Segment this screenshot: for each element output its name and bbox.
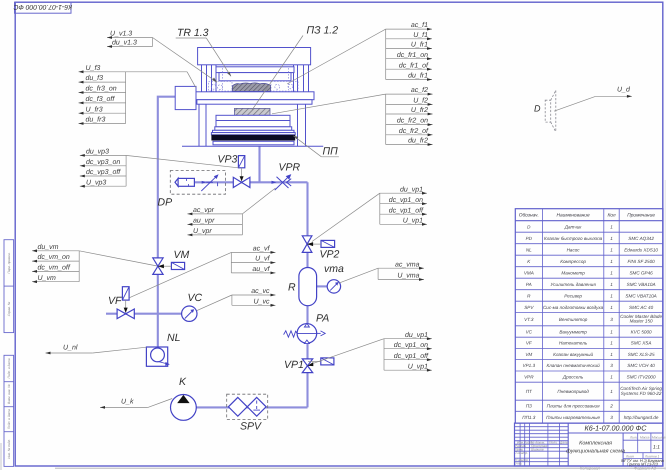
- wire pressure line VP3-VPR: [194, 181, 307, 183]
- valve VP2: [302, 236, 334, 253]
- svg-text:du_vp3: du_vp3: [86, 148, 109, 156]
- svg-text:Справ. №: Справ. №: [7, 301, 11, 316]
- svg-text:U_vc: U_vc: [254, 298, 270, 305]
- valve VM: [153, 258, 185, 275]
- svg-text:U_fr2: U_fr2: [411, 106, 428, 114]
- svg-text:Взам. инв. №: Взам. инв. №: [7, 384, 11, 404]
- svg-text:Дата: Дата: [559, 441, 569, 445]
- svg-text:1: 1: [610, 247, 613, 252]
- svg-text:Вакуумметр: Вакуумметр: [559, 329, 587, 334]
- press tyre blank hatched: [232, 83, 270, 91]
- svg-text:ПП1.3: ПП1.3: [522, 415, 535, 420]
- svg-text:2: 2: [609, 404, 613, 409]
- svg-text:ПЗ 1.2: ПЗ 1.2: [307, 25, 339, 37]
- svg-text:Лит.: Лит.: [629, 436, 638, 440]
- svg-text:1: 1: [610, 224, 613, 229]
- svg-text:1: 1: [610, 374, 613, 379]
- svg-text:1: 1: [610, 293, 613, 298]
- svg-text:Master 150: Master 150: [630, 319, 653, 324]
- svg-text:VP2: VP2: [320, 249, 340, 261]
- svg-text:dc_vp1_off: dc_vp1_off: [394, 352, 429, 360]
- svg-text:3: 3: [610, 415, 613, 420]
- svg-text:ПЗ: ПЗ: [526, 404, 532, 409]
- svg-text:Вентилятор: Вентилятор: [559, 317, 588, 322]
- node k signal: [100, 399, 172, 409]
- svg-text:DP: DP: [158, 197, 173, 209]
- svg-text:Systems FD 960-22: Systems FD 960-22: [621, 391, 662, 396]
- svg-text:U_vf: U_vf: [255, 255, 270, 263]
- node vf bus: [130, 251, 276, 298]
- compressor K: [171, 395, 197, 421]
- svg-text:dc_vp1_on: dc_vp1_on: [394, 341, 428, 349]
- svg-text:dc_vm_on: dc_vm_on: [38, 253, 70, 261]
- muffler DP capsule: [175, 178, 194, 186]
- svg-text:Дроссель: Дроссель: [562, 374, 584, 379]
- press bottom plate: [213, 141, 294, 145]
- svg-text:du_f3: du_f3: [86, 74, 104, 82]
- press mold dashed right: [271, 68, 298, 91]
- svg-text:K: K: [179, 376, 187, 388]
- svg-text:du_fr2: du_fr2: [408, 137, 428, 145]
- svg-text:U_d: U_d: [617, 86, 631, 94]
- svg-text:dc_vp1_on: dc_vp1_on: [389, 196, 423, 204]
- svg-text:Ресивер: Ресивер: [564, 293, 582, 298]
- booster PA: [284, 323, 326, 343]
- svg-text:U_f1: U_f1: [413, 31, 428, 39]
- press base line: [182, 145, 323, 147]
- svg-text:Ширшов: Ширшов: [531, 448, 544, 452]
- svg-text:SPV: SPV: [524, 305, 534, 310]
- svg-text:U_f2: U_f2: [413, 97, 428, 105]
- gauge vma: [327, 280, 340, 293]
- svg-text:dc_vp3_on: dc_vp3_on: [86, 158, 120, 166]
- pump NL: [146, 347, 169, 366]
- svg-text:au_vf: au_vf: [252, 265, 270, 273]
- valve VP3: [233, 156, 250, 188]
- svg-text:ac_vc: ac_vc: [251, 288, 270, 295]
- svg-text:1: 1: [610, 352, 613, 357]
- svg-text:KVC 5000: KVC 5000: [631, 329, 652, 334]
- svg-text:U_vp1: U_vp1: [403, 217, 423, 224]
- svg-text:1: 1: [610, 329, 613, 334]
- svg-text:К6-1-07.00.000 ФС: К6-1-07.00.000 ФС: [13, 3, 72, 10]
- svg-text:ac_f1: ac_f1: [411, 21, 428, 29]
- press lower heater hatched: [234, 108, 270, 115]
- svg-text:PD: PD: [526, 236, 533, 241]
- svg-text:SMC AC 40: SMC AC 40: [629, 305, 654, 310]
- svg-text:Клапан пневматический: Клапан пневматический: [547, 363, 601, 368]
- svg-text:VMA: VMA: [524, 270, 534, 275]
- pipes: [106, 97, 327, 408]
- svg-text:1: 1: [610, 389, 613, 394]
- spec table: [515, 209, 663, 423]
- leader ПП: [321, 156, 339, 158]
- node f1 bus: [287, 28, 432, 84]
- svg-text:1: 1: [610, 259, 613, 264]
- svg-text:U_k: U_k: [121, 398, 134, 406]
- svg-text:Обознач.: Обознач.: [519, 213, 539, 219]
- svg-text:U_vm: U_vm: [38, 275, 56, 282]
- svg-text:ac_f2: ac_f2: [411, 86, 428, 94]
- svg-text:Усилитель давления: Усилитель давления: [550, 282, 596, 287]
- svg-text:Масштаб: Масштаб: [652, 436, 666, 440]
- wire press drop: [258, 146, 260, 182]
- svg-text:К6-1-07.00.000 ФС: К6-1-07.00.000 ФС: [585, 424, 648, 433]
- svg-text:Манометр: Манометр: [561, 270, 585, 275]
- svg-text:TR 1.3: TR 1.3: [177, 27, 209, 39]
- SIGNAL GROUPS: [32, 28, 632, 409]
- svg-text:1: 1: [610, 236, 613, 241]
- svg-text:VC: VC: [188, 292, 203, 304]
- svg-text:Инв. № подл.: Инв. № подл.: [7, 439, 11, 459]
- needle valve VF: [117, 287, 134, 319]
- svg-text:SMC VBA10A: SMC VBA10A: [627, 282, 656, 287]
- wire vacuum main left: [158, 97, 176, 347]
- node vm bus: [32, 249, 157, 283]
- svg-text:dc_vp1_off: dc_vp1_off: [389, 206, 424, 214]
- svg-text:dc_fr2_of: dc_fr2_of: [399, 127, 429, 135]
- svg-text:PA: PA: [526, 282, 532, 287]
- valve VP1: [302, 358, 334, 373]
- LABEL LEADERS: [176, 36, 339, 157]
- svg-text:Плиты нагревательные: Плиты нагревательные: [546, 415, 600, 420]
- svg-text:du_v1.3: du_v1.3: [112, 39, 137, 47]
- press lower columns: [198, 104, 200, 146]
- svg-text:vma: vma: [324, 263, 344, 275]
- svg-text:http://bungard.de: http://bungard.de: [624, 415, 659, 420]
- svg-text:Подп. и дата: Подп. и дата: [7, 409, 11, 429]
- svg-text:NL: NL: [526, 247, 532, 252]
- svg-text:SMC VBAT10A: SMC VBAT10A: [625, 293, 656, 298]
- press platen stack: [216, 115, 290, 127]
- svg-text:1:1: 1:1: [653, 445, 660, 451]
- svg-text:Т.контр.: Т.контр.: [515, 451, 528, 455]
- svg-text:Компрессор: Компрессор: [560, 259, 586, 264]
- svg-text:Наименование: Наименование: [557, 213, 590, 219]
- svg-text:функциональная схема: функциональная схема: [566, 449, 625, 455]
- left border boxes group1: [4, 240, 14, 333]
- node d signal: [554, 95, 632, 111]
- svg-text:du_vm: du_vm: [38, 243, 59, 251]
- svg-text:du_vp1: du_vp1: [405, 331, 428, 339]
- svg-text:FINI SF 2500: FINI SF 2500: [627, 259, 655, 264]
- svg-text:Комплексная: Комплексная: [579, 441, 612, 447]
- svg-text:U_fr3: U_fr3: [86, 105, 103, 113]
- svg-text:du_fr1: du_fr1: [408, 72, 428, 80]
- svg-text:Кол: Кол: [607, 213, 615, 219]
- svg-text:VP1.3: VP1.3: [523, 363, 536, 368]
- node vma bus: [339, 267, 424, 283]
- svg-text:U_vpr: U_vpr: [193, 228, 212, 235]
- svg-text:Примечание: Примечание: [627, 213, 655, 219]
- svg-text:Клапан быстрого выхлопа: Клапан быстрого выхлопа: [544, 236, 603, 241]
- svg-text:VC: VC: [526, 329, 533, 334]
- svg-text:dc_vm_off: dc_vm_off: [38, 264, 71, 272]
- svg-text:au_vpr: au_vpr: [193, 218, 215, 225]
- press air spring black band: [211, 135, 295, 141]
- svg-text:ac_vf: ac_vf: [253, 245, 271, 253]
- svg-text:D: D: [534, 104, 541, 114]
- svg-text:Плиты для прессования: Плиты для прессования: [547, 404, 600, 409]
- svg-text:PA: PA: [316, 313, 329, 325]
- node v1.3 bus: [107, 36, 217, 82]
- receiver R: [299, 268, 317, 306]
- node vpr bus: [187, 188, 275, 236]
- svg-text:SMC ITV2000: SMC ITV2000: [627, 374, 656, 379]
- svg-text:Датчик: Датчик: [564, 224, 583, 229]
- svg-text:dc_vp3_off: dc_vp3_off: [86, 168, 121, 176]
- svg-text:VF: VF: [108, 295, 122, 307]
- svg-text:SPV: SPV: [240, 421, 262, 433]
- press upper columns: [201, 65, 203, 92]
- svg-text:VPR: VPR: [279, 162, 301, 174]
- svg-text:U_nl: U_nl: [63, 343, 78, 351]
- node vp2 bus: [312, 192, 427, 242]
- left border boxes group2: [4, 355, 14, 466]
- svg-text:1: 1: [610, 270, 613, 275]
- svg-text:1: 1: [610, 341, 613, 346]
- press side box (vacuum port): [175, 86, 196, 109]
- scan artifact bottom: [0, 180, 666, 470]
- svg-text:ac_vma: ac_vma: [395, 261, 420, 268]
- node vp1 bus: [313, 337, 432, 371]
- svg-text:dc_fr1_of: dc_fr1_of: [399, 61, 429, 69]
- svg-text:VM: VM: [174, 249, 190, 261]
- svg-text:VM: VM: [525, 352, 532, 357]
- svg-text:SMC GP46: SMC GP46: [629, 270, 653, 275]
- PRESS ASSEMBLY: [175, 48, 323, 147]
- svg-text:3: 3: [610, 363, 613, 368]
- svg-text:Натекатель: Натекатель: [559, 341, 588, 346]
- leader ПЗ: [252, 36, 303, 111]
- press top beam: [198, 48, 311, 65]
- svg-text:Перв. примен.: Перв. примен.: [7, 252, 11, 273]
- svg-text:ПП: ПП: [323, 146, 339, 158]
- node vp3 bus: [80, 154, 239, 188]
- wire right main vertical: [306, 182, 308, 407]
- svg-text:U_f3: U_f3: [86, 64, 101, 72]
- wire bottom horizontal: [196, 406, 307, 408]
- node f2 bus: [272, 93, 433, 146]
- svg-text:Сис-ма подготовки воздуха: Сис-ма подготовки воздуха: [543, 305, 604, 310]
- svg-text:SMC XLS-25: SMC XLS-25: [628, 352, 655, 357]
- wire R to gauge: [317, 285, 328, 287]
- vacuum gauge VC: [182, 306, 197, 321]
- svg-text:dc_fr1_on: dc_fr1_on: [397, 51, 428, 59]
- svg-text:3: 3: [610, 317, 613, 322]
- left columns: [519, 423, 521, 466]
- node f3 bus: [79, 70, 197, 125]
- designation box top-left: [13, 2, 72, 13]
- svg-text:U_vp3: U_vp3: [86, 179, 106, 186]
- sensor D: [545, 90, 556, 132]
- node nl signal: [46, 347, 147, 354]
- throttle VPR: [272, 174, 292, 190]
- SIGNAL TEXTS: [38, 21, 631, 406]
- svg-text:Насос: Насос: [567, 247, 581, 252]
- press mid beam: [195, 92, 314, 100]
- svg-text:1: 1: [610, 282, 613, 287]
- svg-text:VP1: VP1: [284, 359, 304, 371]
- svg-text:U_vp1: U_vp1: [408, 363, 428, 370]
- svg-text:NL: NL: [167, 332, 181, 344]
- svg-text:SMC XSA: SMC XSA: [631, 341, 652, 346]
- svg-text:VP3: VP3: [218, 154, 238, 166]
- wire VF line: [106, 313, 182, 315]
- svg-text:Утв.: Утв.: [515, 462, 522, 466]
- press mold dashed left: [209, 68, 233, 91]
- air treatment SPV: [227, 394, 268, 419]
- svg-text:dc_f3_off: dc_f3_off: [86, 95, 116, 103]
- svg-text:Подп.: Подп.: [549, 441, 558, 445]
- svg-text:ac_vpr: ac_vpr: [193, 207, 215, 214]
- svg-text:U_fr1: U_fr1: [411, 41, 428, 49]
- svg-text:U_v1.3: U_v1.3: [110, 31, 132, 38]
- svg-text:dc_fr3_on: dc_fr3_on: [86, 85, 117, 93]
- svg-text:Подп. и дата: Подп. и дата: [7, 358, 11, 378]
- svg-text:SMC VCH 40: SMC VCH 40: [627, 363, 655, 368]
- svg-text:1: 1: [610, 305, 613, 310]
- svg-text:Edwards XDS10: Edwards XDS10: [624, 247, 658, 252]
- DP dashed enclosure: [170, 171, 225, 195]
- svg-text:VT.3: VT.3: [524, 317, 534, 322]
- svg-text:U_vma: U_vma: [397, 273, 419, 280]
- svg-text:Пневмопривод: Пневмопривод: [557, 389, 589, 394]
- svg-text:du_vp1: du_vp1: [400, 185, 423, 193]
- svg-text:du_fr3: du_fr3: [86, 116, 106, 124]
- svg-text:VPR: VPR: [524, 374, 534, 379]
- press top mold plate: [216, 67, 294, 73]
- throttle in DP: [201, 174, 218, 191]
- leader TR: [176, 37, 207, 39]
- node vc bus: [197, 294, 276, 311]
- svg-text:dc_fr2_on: dc_fr2_on: [397, 117, 428, 125]
- svg-text:Масса: Масса: [640, 436, 650, 440]
- title block: [515, 423, 664, 466]
- svg-text:R: R: [288, 282, 296, 294]
- svg-text:Клапан вакуумный: Клапан вакуумный: [553, 352, 593, 357]
- svg-text:SMC AQ342: SMC AQ342: [628, 236, 654, 241]
